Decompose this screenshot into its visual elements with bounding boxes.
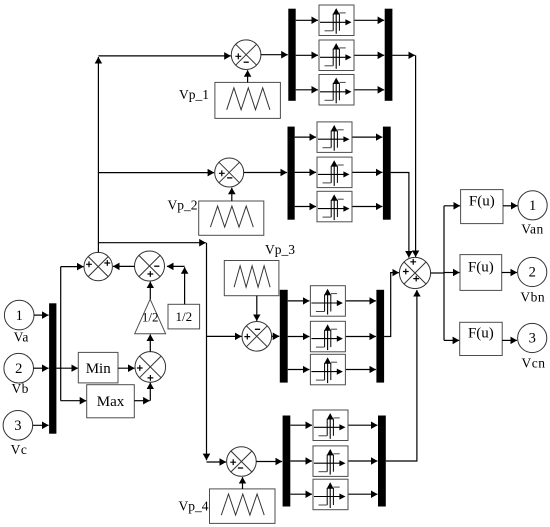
input port 1 [4, 300, 34, 330]
wire Vb to mux [34, 367, 49, 369]
svg-text:F(u): F(u) [468, 326, 494, 342]
bank3 relay R3b [310, 321, 345, 352]
svg-text:Vbn: Vbn [520, 290, 545, 305]
svg-text:Vc: Vc [11, 442, 28, 457]
bank3 relay R3a [310, 286, 345, 317]
sum comparator A3 [242, 322, 272, 352]
bank2 demux bar [288, 127, 295, 220]
triangle-wave source VP_2 [199, 201, 264, 235]
bank1 relay R1a [319, 5, 354, 36]
svg-text:Max: Max [97, 394, 125, 410]
svg-text:2: 2 [15, 361, 22, 377]
wire F2 to port Vbn [502, 272, 517, 274]
bank3 output wire to big sum (right, up, right) [384, 273, 399, 337]
svg-text:F(u): F(u) [468, 260, 494, 276]
svg-text:Vp_3: Vp_3 [265, 242, 295, 257]
wire mux output stub [56, 367, 60, 369]
bank4 wires demux to relays [290, 424, 312, 426]
F(u) block 3 [460, 322, 503, 355]
input port 3 [3, 411, 33, 441]
bank1 wires relays to mux [355, 19, 385, 21]
svg-text:Min: Min [86, 361, 112, 377]
bank4 relay R4a [313, 410, 348, 441]
wire to F(u) 1 [444, 205, 460, 207]
svg-text:2: 2 [529, 265, 536, 281]
wire Min to sum S3 [118, 367, 135, 369]
wire trunk to VP_2 comparator [98, 172, 214, 174]
output port 2 [518, 257, 547, 286]
bank1 relay R1b [319, 40, 354, 71]
bank4 relay R4c [313, 479, 348, 510]
bank1 demux bar [288, 9, 295, 101]
wire comparator A4 to bank4 demux [256, 461, 282, 463]
wire branch to VP_3 comparator [207, 335, 242, 337]
input port 2 [4, 353, 34, 383]
svg-text:Vp_4: Vp_4 [179, 499, 209, 514]
wire S4 output to F(u) branch [431, 272, 444, 274]
wire to F(u) 3 [444, 339, 459, 341]
bank2 wires relays to mux [353, 136, 383, 138]
wire VP_2 source to comparator [231, 188, 233, 201]
wire Va to mux [34, 314, 49, 316]
svg-text:Vp_1: Vp_1 [179, 87, 209, 102]
wire F3 to port Vcn [502, 339, 517, 341]
sum S2 (subtract) [135, 251, 165, 281]
sum comparator A4 [227, 447, 257, 477]
wire Vc to mux [33, 424, 49, 426]
svg-text:3: 3 [14, 418, 21, 434]
wire comparator A1 to bank1 demux [261, 54, 288, 56]
wire VP_4 source to comparator [242, 477, 244, 489]
wire Max to sum S3 (right then up) [134, 400, 149, 402]
wire VP_1 source to comparator [247, 70, 249, 82]
triangle-wave source VP_3 [224, 261, 279, 296]
svg-text:1/2: 1/2 [175, 309, 192, 324]
bank2 wires demux to relays [295, 136, 316, 138]
bank3 relay R3c [310, 354, 345, 385]
sum S3 (Min+Max) [135, 352, 166, 383]
sum comparator A2 [215, 158, 244, 187]
bank2 relay R2a [317, 122, 352, 152]
bank4 demux bar [283, 416, 291, 507]
wire S3 to gain triangle [149, 334, 151, 351]
wire comparator A3 to bank3 demux [272, 335, 280, 337]
svg-text:Vb: Vb [11, 381, 29, 396]
F(u) block 2 [460, 255, 502, 291]
wire F(u) branch vertical [443, 206, 445, 341]
bank3 mux bar [376, 290, 384, 383]
triangle-wave source VP_4 [210, 489, 276, 524]
bank4 mux bar [378, 416, 386, 507]
mux bar (inputs) [49, 303, 56, 433]
bank1 wires demux to relays [296, 19, 318, 21]
wire constant to S2 (up then left) [184, 267, 186, 304]
gain triangle 1/2 [135, 299, 166, 334]
sum S1 [84, 252, 112, 280]
wire trunk branch to lower comparators [98, 242, 205, 244]
wire to F(u) 2 [444, 272, 460, 274]
Min block [78, 352, 118, 383]
wire to Max input [61, 400, 87, 402]
Max block [87, 385, 135, 418]
bank1 mux bar [385, 9, 393, 101]
svg-text:Van: Van [521, 222, 544, 237]
triangle-wave source VP_1 [215, 82, 281, 118]
svg-text:Vp_2: Vp_2 [168, 198, 198, 213]
svg-text:Vcn: Vcn [522, 356, 546, 371]
bank2 output wire to big sum (right then down) [391, 173, 409, 258]
bank3 demux bar [280, 290, 288, 383]
wire VP_3 source to comparator [256, 296, 258, 321]
svg-text:F(u): F(u) [469, 194, 495, 210]
output port 3 [518, 323, 547, 352]
output port 1 [518, 191, 547, 220]
sum comparator A1 [231, 40, 261, 70]
svg-text:Va: Va [14, 330, 29, 345]
bank2 mux bar [383, 127, 391, 220]
big sum S4 [399, 257, 430, 288]
bank3 wires relays to mux [346, 300, 376, 302]
svg-text:3: 3 [529, 331, 536, 347]
svg-text:1/2: 1/2 [142, 310, 159, 325]
bank2 relay R2b [317, 157, 352, 188]
wire F1 to port Van [503, 205, 518, 207]
F(u) block 1 [461, 190, 503, 224]
bank4 wires relays to mux [349, 424, 378, 426]
wire trunk to VP_1 comparator [98, 55, 230, 57]
bank1 output wire to big sum (right then down) [392, 54, 415, 56]
wire to Min input [61, 367, 78, 369]
constant block 1/2 [168, 304, 200, 329]
bank3 wires demux to relays [288, 300, 310, 302]
bank2 relay R2c [317, 191, 352, 222]
wire vertical distribution left [60, 267, 62, 401]
bank4 output wire to big sum (right then up) [386, 290, 417, 461]
bank1 relay R1c [319, 75, 354, 106]
svg-text:1: 1 [529, 198, 536, 214]
svg-text:1: 1 [16, 308, 23, 324]
wire S1 output rising trunk [97, 57, 99, 252]
wire comparator A2 to bank2 demux [244, 172, 287, 174]
wire gain to sum S2 [149, 282, 151, 300]
bank4 relay R4b [313, 446, 348, 477]
wire S2 output to S1 [113, 265, 135, 267]
wire to sum S1 left input [61, 266, 84, 268]
wire branch to VP_4 comparator [207, 461, 227, 463]
